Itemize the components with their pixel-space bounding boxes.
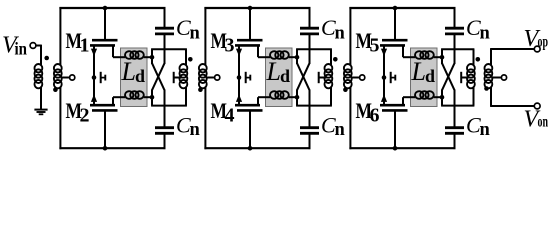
wire right rail bottom stage3 <box>454 106 456 128</box>
wire right rail top stage1 <box>164 7 166 28</box>
dot drain node top stage3 <box>440 55 445 60</box>
transformer T2 secondary winding <box>344 64 352 72</box>
dot T1 secondary phase <box>198 87 203 92</box>
svg-text:L: L <box>121 57 136 86</box>
svg-text:4: 4 <box>225 105 235 127</box>
svg-text:op: op <box>538 34 549 51</box>
transistor M1 <box>92 39 118 42</box>
cross-couple X stage2 <box>296 49 298 64</box>
svg-text:n: n <box>335 24 346 44</box>
svg-text:in: in <box>15 39 28 59</box>
transistor M3 <box>237 39 263 42</box>
dot T1 primary phase <box>188 57 193 62</box>
bias feed tail node stage1 <box>100 72 102 83</box>
capacitor Cn bottom stage1 <box>155 126 174 129</box>
svg-text:n: n <box>335 120 346 140</box>
transformer T0 secondary center tap <box>61 77 69 79</box>
terminal gate bias stage2 <box>215 75 220 80</box>
dot drain node top stage2 <box>295 55 300 60</box>
wire right rail bottom stage2 <box>309 106 311 128</box>
terminal gate bias stage1 <box>70 75 75 80</box>
svg-text:5: 5 <box>370 35 380 57</box>
transformer T2 primary winding <box>330 49 332 62</box>
wire Vin to input transformer primary <box>36 45 41 47</box>
terminal Vin <box>30 43 36 49</box>
wire to Von <box>490 105 534 107</box>
dot T0 secondary phase <box>53 87 58 92</box>
wire right rail bottom stage1 <box>164 106 166 128</box>
transformer T0 secondary winding <box>54 64 62 72</box>
svg-text:3: 3 <box>225 35 235 57</box>
wire gate lead M5 <box>394 8 396 41</box>
transformer T3 primary winding <box>473 49 475 62</box>
svg-text:6: 6 <box>370 105 380 127</box>
wire gate lead M6 <box>394 111 396 149</box>
transformer T2 secondary center tap <box>351 77 359 79</box>
svg-text:d: d <box>425 66 435 86</box>
ground <box>34 109 47 111</box>
transformer T3 secondary center tap <box>493 77 502 79</box>
capacitor Cn bottom stage3 <box>445 126 464 129</box>
inductor Ld bottom stage1 <box>113 96 125 98</box>
svg-text:d: d <box>135 66 145 86</box>
wire to Vop <box>490 48 534 50</box>
wire primary to ground <box>40 92 42 110</box>
svg-text:n: n <box>480 24 491 44</box>
dot gate M6 junction <box>393 146 398 151</box>
transformer T1 secondary winding <box>199 64 207 72</box>
dot common source node stage2 <box>237 75 242 80</box>
inductor Ld box stage2 <box>266 48 293 107</box>
transformer T1 primary winding <box>185 49 187 62</box>
inductor Ld bottom stage3 <box>403 96 415 98</box>
wire gate lead M1 <box>104 8 106 41</box>
capacitor Cn top stage3 <box>445 27 464 30</box>
svg-text:L: L <box>411 57 426 86</box>
transformer T0 primary winding <box>35 64 43 72</box>
svg-text:1: 1 <box>80 35 90 57</box>
dot drain node top stage1 <box>150 55 155 60</box>
wire output stub top stage3 <box>441 48 474 50</box>
bias feed tail node stage3 <box>390 72 392 83</box>
svg-text:n: n <box>190 24 201 44</box>
transformer T3 secondary winding <box>490 49 492 62</box>
wire stage2 bottom gate rail <box>204 147 310 149</box>
svg-text:n: n <box>190 120 201 140</box>
dot drain node bottom stage3 <box>440 95 445 100</box>
transformer T3 primary center tap <box>460 72 462 83</box>
dot T3 primary phase <box>476 57 481 62</box>
wire stage1 top gate rail <box>59 7 165 9</box>
transistor M4 <box>237 109 263 112</box>
wire right rail top stage2 <box>309 7 311 28</box>
capacitor Cn top stage2 <box>300 27 319 30</box>
dot T2 secondary phase <box>343 87 348 92</box>
inductor Ld box stage1 <box>121 48 148 107</box>
wire output stub bottom stage1 <box>151 105 187 107</box>
dot gate M2 junction <box>103 146 108 151</box>
capacitor Cn top stage1 <box>155 27 174 30</box>
wire gate lead M4 <box>249 111 251 149</box>
cross-couple X stage1 <box>151 49 153 64</box>
wire stage1 bottom gate rail <box>59 147 165 149</box>
dot T3 secondary phase <box>484 86 489 91</box>
inductor Ld top stage2 <box>258 56 270 58</box>
terminal gate bias stage3 <box>360 75 365 80</box>
capacitor Cn bottom stage2 <box>300 126 319 129</box>
transformer T1 secondary center tap <box>206 77 214 79</box>
transistor M6 <box>382 109 408 112</box>
wire output stub top stage1 <box>151 48 187 50</box>
transformer T1 primary center tap <box>173 72 175 83</box>
dot gate M5 junction <box>393 6 398 11</box>
dot drain node bottom stage2 <box>295 95 300 100</box>
bias feed tail node stage2 <box>245 72 247 83</box>
svg-text:d: d <box>280 66 290 86</box>
dot T2 primary phase <box>333 57 338 62</box>
wire output stub bottom stage2 <box>296 105 332 107</box>
transistor M5 <box>382 39 408 42</box>
wire stage3 bottom gate rail <box>349 147 455 149</box>
transistor M2 <box>92 109 118 112</box>
dot gate M1 junction <box>103 6 108 11</box>
dot gate M3 junction <box>248 6 253 11</box>
wire stage3 top gate rail <box>349 7 455 9</box>
wire stage2 top gate rail <box>204 7 310 9</box>
cross-couple X stage3 <box>441 49 443 64</box>
svg-text:on: on <box>538 114 549 131</box>
wire gate lead M3 <box>249 8 251 41</box>
dot common source node stage1 <box>92 75 97 80</box>
svg-text:n: n <box>480 120 491 140</box>
wire right rail top stage3 <box>454 7 456 28</box>
wire output stub bottom stage3 <box>441 105 474 107</box>
terminal output common-mode tap <box>501 75 506 80</box>
inductor Ld bottom stage2 <box>258 96 270 98</box>
inductor Ld top stage3 <box>403 56 415 58</box>
terminal Von <box>534 103 540 109</box>
terminal Vop <box>534 46 540 52</box>
wire gate lead M2 <box>104 111 106 149</box>
inductor Ld top stage1 <box>113 56 125 58</box>
svg-text:L: L <box>266 57 281 86</box>
dot T0 primary phase <box>44 56 49 61</box>
transformer T2 primary center tap <box>318 72 320 83</box>
dot drain node bottom stage1 <box>150 95 155 100</box>
svg-text:2: 2 <box>80 105 90 127</box>
dot common source node stage3 <box>382 75 387 80</box>
wire output stub top stage2 <box>296 48 332 50</box>
inductor Ld box stage3 <box>411 48 438 107</box>
dot gate M4 junction <box>248 146 253 151</box>
